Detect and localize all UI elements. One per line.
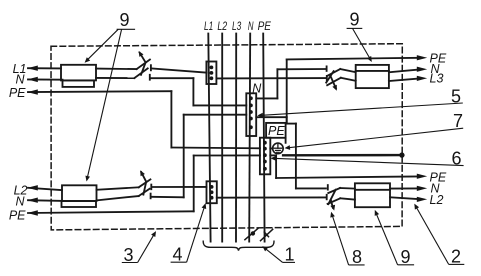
wire N output bottom-right <box>390 187 419 189</box>
riser bus L1 <box>208 34 210 242</box>
callout 9 top-left digit <box>117 10 136 30</box>
svg-text:L2: L2 <box>430 193 444 207</box>
wire S4 to box U4 N pole <box>340 187 355 190</box>
callout 4 leader to terminal block X2 <box>187 203 207 262</box>
wire N box U3 to switch S3 <box>97 196 139 200</box>
arrow PE output bottom-left <box>27 210 38 215</box>
svg-text:8: 8 <box>352 247 362 267</box>
brace under riser group (item 1) <box>203 241 274 250</box>
callout 7 leader to earth terminal <box>285 128 464 150</box>
svg-text:PE: PE <box>268 124 285 138</box>
apartment unit box U3 bottom-left (item 9) <box>62 185 97 207</box>
switch S2 mechanical link <box>326 71 333 82</box>
wire PE bottom-left to PE strip <box>194 154 260 156</box>
wire phase tap X2 to bottom-right switch S4 <box>217 196 327 198</box>
apartment unit box U4 bottom-right (item 9) <box>355 183 390 207</box>
wire PE output bottom-right <box>276 176 419 178</box>
switch S1 fixed contact lower <box>149 75 151 80</box>
wire PE output top-right <box>287 58 419 60</box>
svg-text:9: 9 <box>401 247 411 267</box>
wire S2 to box U2 N pole <box>340 69 355 72</box>
switch S3 mechanical link <box>143 182 146 195</box>
terminal block X2 on bus (item 4) <box>207 181 217 203</box>
switch S1 blade lower <box>134 68 147 78</box>
wire N output top-right <box>389 70 419 73</box>
callout 9 bottom-right leader to box U4 <box>375 210 398 265</box>
callout 3 digit <box>122 245 138 265</box>
riser bus PE <box>263 34 264 242</box>
callout 1 leader to riser group <box>262 246 282 262</box>
wire L2 output bottom-right <box>390 197 419 199</box>
arrow L2 output bottom-right <box>417 197 427 202</box>
svg-text:N: N <box>252 81 262 95</box>
svg-text:L2: L2 <box>217 21 227 33</box>
switch S3 fixed contact upper <box>150 185 152 190</box>
wire PE strip to bottom-right drop <box>270 155 276 178</box>
apartment unit box U2 top-right (item 9) <box>356 65 389 88</box>
svg-text:N: N <box>248 21 254 33</box>
callout 9 bottom-right digit <box>398 247 415 267</box>
wire L1 box to switch <box>96 68 137 71</box>
riser bus N <box>249 34 250 242</box>
switch S1 fixed contact upper <box>150 65 152 70</box>
callout 1 digit <box>283 245 295 265</box>
bonding conductor to enclosure <box>283 152 404 157</box>
callout 9 top-right digit <box>347 10 363 30</box>
PE label box <box>266 123 286 143</box>
PE terminal strip (item 6) <box>260 138 270 175</box>
conductor mark slash on PE riser <box>261 229 273 240</box>
arrow N output top-right <box>417 67 427 72</box>
N terminal strip (item 5) <box>246 93 256 136</box>
wire PE riser top-right vertical <box>286 59 288 123</box>
svg-text:PE: PE <box>9 86 26 100</box>
callout 9 leader to box U1 <box>85 29 119 63</box>
arrow PE output bottom-right <box>417 174 427 179</box>
switch S4 fixed contact upper <box>327 185 329 190</box>
callout 2 digit <box>449 247 465 267</box>
conductor mark slash on N riser <box>245 228 258 239</box>
riser bus L3 <box>235 34 237 242</box>
switch S3 actuator arrow <box>140 170 146 182</box>
switch S4 blade upper <box>328 188 340 193</box>
wire phase tap X1 to top-right switch S2 <box>216 77 326 79</box>
arrow N output bottom-right <box>417 186 427 191</box>
callout 8 leader to switch S4 actuator <box>330 212 348 265</box>
arrow N output bottom-left <box>27 198 38 203</box>
callout 9 leader to box U3 <box>85 29 121 181</box>
arrow PE output top-right <box>417 55 427 60</box>
wire PE output bottom-left <box>28 211 194 213</box>
svg-text:9: 9 <box>350 10 360 30</box>
svg-text:L1: L1 <box>204 21 213 33</box>
switch S2 blade upper <box>328 69 341 76</box>
wire PE drop vertical top-left <box>170 91 172 147</box>
callout 3 leader to enclosure border <box>138 231 156 262</box>
switch S1 blade upper <box>137 60 150 70</box>
switch S1 mechanical link <box>141 62 146 74</box>
arrow N output top-left <box>27 77 38 82</box>
wire PE vertical bottom-left <box>193 156 195 212</box>
wire N strip to bottom-right (drop) <box>256 117 326 188</box>
svg-text:2: 2 <box>451 247 461 267</box>
wire PE strip to earth terminal <box>270 147 272 149</box>
svg-text:PE: PE <box>9 208 26 222</box>
svg-text:N: N <box>15 195 25 209</box>
svg-text:1: 1 <box>285 245 295 265</box>
enclosure dashed border (item 3) <box>51 44 402 230</box>
switch S2 fixed contact upper <box>326 66 328 71</box>
switch S4 actuator arrow (item 8) <box>330 200 335 211</box>
wire switch S3 to terminal block X2 <box>152 186 207 188</box>
wire L1 output top-left <box>28 67 61 69</box>
callout 9 top-right leader to box U2 <box>353 28 372 62</box>
apartment unit box U1 top-left (item 9) <box>61 65 96 87</box>
wire N branch to N strip (upper) <box>193 104 246 106</box>
earth terminal circle (item 7) <box>273 143 284 154</box>
wire N output bottom-left <box>28 199 63 202</box>
arrow L1 output top-left <box>27 66 38 71</box>
wire L2 box U3 to switch S3 <box>97 187 139 190</box>
terminal block X1 on bus L1 <box>206 62 216 85</box>
wire N output top-left <box>28 78 63 80</box>
wire N strip to switch S2 <box>256 69 326 98</box>
switch S2 actuator arrow <box>331 76 337 91</box>
svg-text:9: 9 <box>120 10 130 30</box>
arrow L2 output bottom-left <box>27 185 38 190</box>
wire L3 output top-right <box>389 79 419 82</box>
svg-text:PE: PE <box>258 21 272 33</box>
switch S3 blade upper <box>139 179 151 187</box>
switch S1 actuator arrow <box>139 51 146 62</box>
callout 8 digit <box>349 247 365 267</box>
callout 6 leader to PE strip <box>270 156 463 166</box>
arrow L3 output top-right <box>417 76 427 81</box>
wire N switch S3 to vertical <box>152 196 184 199</box>
switch S2 blade lower <box>327 78 341 85</box>
switch S3 fixed contact lower <box>150 194 152 199</box>
wire PE output top-left <box>28 90 171 93</box>
wire S2 to box U2 phase pole <box>341 78 356 81</box>
switch S3 blade lower <box>139 189 150 196</box>
wire N box to switch S1 <box>96 77 134 79</box>
switch S4 mechanical link <box>328 190 335 204</box>
riser bus L2 <box>221 34 223 242</box>
wire S4 to box U4 phase pole <box>340 198 355 199</box>
svg-text:L3: L3 <box>232 21 242 33</box>
wire bottom-left N riser to N strip <box>184 114 247 116</box>
callout 4 digit <box>171 245 187 265</box>
wire N drop vertical from S1 <box>192 78 194 105</box>
wire N vertical bottom-left <box>183 115 185 198</box>
svg-text:N: N <box>15 73 25 87</box>
wire PE top-left to PE strip <box>171 147 260 150</box>
svg-text:L3: L3 <box>430 72 444 86</box>
svg-text:4: 4 <box>173 245 183 265</box>
arrow PE output top-left <box>27 89 38 94</box>
svg-text:3: 3 <box>124 245 134 265</box>
callout 2 leader to L2 output <box>414 204 448 265</box>
switch S4 blade lower <box>328 198 341 204</box>
wire switch S1 to terminal block X1 <box>151 68 206 72</box>
callout 5 leader to N strip <box>257 103 462 118</box>
switch S4 fixed contact lower <box>326 195 328 200</box>
wire L2 output bottom-left <box>28 188 62 190</box>
switch S2 fixed contact lower <box>326 76 328 81</box>
wire switch S1 N pole to drop <box>151 77 193 79</box>
